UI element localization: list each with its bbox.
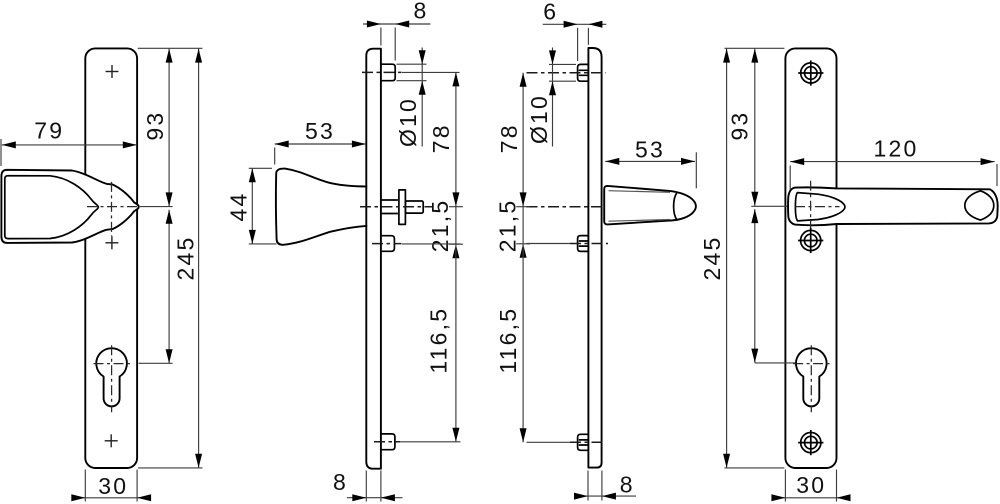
spindle hub view2 bbox=[381, 200, 398, 214]
svg-text:30: 30 bbox=[98, 473, 128, 499]
lever handle view4 outline bbox=[788, 187, 998, 225]
svg-text:53: 53 bbox=[635, 137, 665, 163]
screw cross top view1 bbox=[106, 65, 119, 78]
extension lines 8 bottom view3 bbox=[588, 471, 602, 501]
svg-text:6: 6 bbox=[543, 0, 558, 24]
extension line bottom view1 bbox=[138, 467, 203, 469]
extension lines 120 view4 bbox=[790, 164, 997, 190]
side plate view3 bbox=[588, 48, 601, 468]
spindle flange view2 bbox=[399, 190, 406, 225]
backplate view4 outline bbox=[785, 48, 836, 468]
extension lines d10 view2 bbox=[397, 64, 427, 81]
dimension 78 view3 bbox=[496, 73, 527, 207]
extension 21,5 view2 bbox=[402, 243, 461, 245]
dimension handle-to-cylinder view1 bbox=[166, 210, 173, 364]
euro cylinder keyhole view1 bbox=[96, 348, 127, 406]
spindle centerline view2 bbox=[360, 206, 432, 208]
grip handle view1 outer bbox=[1, 170, 138, 243]
dimension 245 view4 bbox=[699, 49, 730, 468]
svg-text:8: 8 bbox=[333, 469, 348, 495]
extension lines width view1 bbox=[85, 470, 137, 502]
dimension handle-to-cylinder view4 bbox=[751, 209, 758, 363]
svg-text:116,5: 116,5 bbox=[495, 307, 521, 374]
extension lines 8 top view2 bbox=[381, 28, 395, 61]
lever grip centerline vertical view4 bbox=[810, 181, 812, 231]
dimension 53 view2 bbox=[275, 118, 366, 147]
extension 78 top view2 bbox=[402, 71, 460, 73]
extension lines 44 view2 bbox=[249, 168, 277, 244]
extension line top view4 bbox=[725, 47, 785, 49]
extension line keyhole view1 bbox=[139, 362, 173, 364]
svg-text:245: 245 bbox=[173, 236, 199, 281]
dimension 21,5 view3 bbox=[494, 199, 530, 258]
lower boss view2 bbox=[381, 236, 395, 252]
dimension 6 top view3 bbox=[543, 0, 607, 28]
dimension 30 view1 bbox=[71, 473, 151, 501]
extension line grip left view1 bbox=[0, 139, 2, 166]
dimension 93 view1 bbox=[142, 49, 172, 207]
svg-text:93: 93 bbox=[142, 111, 168, 141]
keyhole crosshair view4 bbox=[793, 345, 831, 412]
extension line handle center view4 bbox=[751, 205, 789, 207]
extension lines 30 view4 bbox=[785, 470, 836, 502]
dimension 30 view4 bbox=[771, 472, 850, 501]
dimension 120 view4 bbox=[790, 136, 994, 166]
knob side profile view3 outer bbox=[604, 186, 696, 225]
screw cross mid view1 bbox=[105, 236, 118, 249]
grip centerline horizontal view1 bbox=[87, 206, 173, 208]
dimension 8 top view2 bbox=[363, 0, 430, 28]
svg-text:116,5: 116,5 bbox=[425, 307, 451, 374]
bottom boss view3 bbox=[578, 434, 589, 450]
bottom boss extension view3 bbox=[527, 441, 606, 443]
dimension 44 view2 bbox=[225, 168, 255, 244]
dimension 8 bottom view2 bbox=[333, 469, 403, 501]
mid boss view3 bbox=[578, 236, 589, 252]
spindle square view2 bbox=[405, 201, 423, 213]
svg-text:21,5: 21,5 bbox=[494, 199, 520, 253]
dimension 8 bottom view3 bbox=[574, 472, 636, 500]
screw top view4 bbox=[798, 60, 823, 85]
lever grip inner bullet view4 bbox=[795, 193, 845, 221]
svg-text:8: 8 bbox=[414, 0, 429, 23]
dimension 79 view1 bbox=[2, 118, 137, 149]
top boss view3 bbox=[578, 64, 589, 81]
extension lines 8 bottom view2 bbox=[366, 471, 381, 502]
euro cylinder keyhole view4 bbox=[796, 348, 827, 406]
svg-text:53: 53 bbox=[305, 118, 335, 144]
extension lines 6 view3 bbox=[578, 28, 589, 61]
extension line top view1 bbox=[138, 47, 203, 49]
extension line bottom view4 bbox=[725, 467, 785, 469]
bottom boss centerline view2 bbox=[374, 441, 400, 443]
knob cap crescent view3 bbox=[674, 193, 677, 220]
dimension 116,5 view2 bbox=[425, 244, 459, 442]
screw cross bottom view1 bbox=[105, 434, 118, 447]
top boss centerline view3 bbox=[527, 72, 607, 74]
extension 53 view3 bbox=[695, 152, 697, 188]
dimension diameter 10 view3 bbox=[526, 48, 556, 147]
svg-text:30: 30 bbox=[796, 472, 826, 498]
lever tip lens view4 bbox=[965, 191, 994, 220]
svg-text:8: 8 bbox=[620, 472, 635, 498]
svg-text:245: 245 bbox=[699, 236, 725, 281]
svg-text:78: 78 bbox=[428, 123, 454, 153]
backplate view1 outline bbox=[85, 48, 137, 468]
extension 53 view2 bbox=[274, 148, 276, 165]
dimension 78 view2 bbox=[428, 72, 460, 206]
dimension 21,5 view2 bbox=[427, 199, 463, 259]
dimension 53 view3 bbox=[605, 137, 695, 165]
top boss view2 bbox=[381, 64, 395, 81]
knob centerline view3 bbox=[527, 206, 603, 208]
mid boss extension view3 bbox=[527, 243, 609, 245]
knob inner highlight lines view3 bbox=[609, 191, 671, 222]
extension 116,5 view2 bbox=[400, 441, 461, 443]
grip side profile view2 bbox=[276, 169, 367, 245]
svg-text:78: 78 bbox=[496, 123, 522, 153]
dimension 245 view1 bbox=[173, 49, 202, 468]
extension lines d10 view3 bbox=[549, 64, 576, 81]
keyhole crosshair view1 bbox=[94, 345, 132, 412]
extension line keyhole view4 bbox=[755, 362, 797, 364]
grip handle view1 inner bbox=[5, 176, 99, 239]
svg-text:44: 44 bbox=[225, 192, 251, 222]
dimension 93 view4 bbox=[726, 49, 758, 206]
svg-text:Ø10: Ø10 bbox=[395, 97, 421, 147]
svg-text:93: 93 bbox=[726, 111, 752, 141]
side plate view2 bbox=[366, 49, 381, 469]
lower boss centerline view2 bbox=[372, 243, 402, 245]
grip centerline vertical view1 bbox=[111, 182, 113, 236]
screw bottom view4 bbox=[798, 430, 823, 455]
top boss centerline view2 bbox=[362, 71, 402, 73]
svg-text:120: 120 bbox=[874, 136, 919, 162]
dimension diameter 10 view2 bbox=[395, 48, 426, 148]
svg-text:Ø10: Ø10 bbox=[526, 94, 552, 144]
lever grip centerline horizontal view4 bbox=[795, 206, 840, 208]
svg-text:79: 79 bbox=[34, 118, 64, 144]
dimension 116,5 view3 bbox=[495, 244, 527, 442]
bottom boss view2 bbox=[381, 434, 395, 450]
screw mid view4 bbox=[798, 228, 823, 253]
